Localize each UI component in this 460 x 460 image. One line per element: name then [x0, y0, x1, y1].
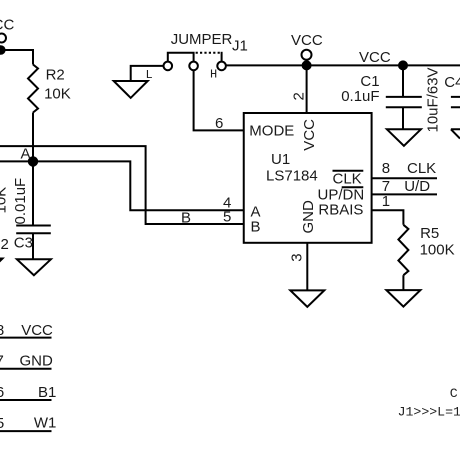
connector pin number 6 (clipped) — [0, 384, 4, 401]
note text J1>>>L=1 — [398, 404, 460, 419]
U1 pin 1 wire to R5 — [372, 210, 404, 225]
svg-text:100K: 100K — [420, 242, 455, 259]
U1 pin 7 U/D wire — [372, 193, 437, 195]
U1 pin name RBAIS — [318, 202, 363, 219]
svg-text:10K: 10K — [0, 187, 9, 214]
svg-text:GND: GND — [300, 200, 317, 234]
power symbol VCC top-left (clipped at edge) — [0, 34, 6, 43]
svg-text:R5: R5 — [420, 225, 439, 242]
svg-text:W1: W1 — [34, 415, 57, 432]
ground below R5 — [386, 290, 420, 307]
svg-text:L: L — [146, 68, 153, 82]
blue value fragment at left edge (rotated) — [0, 187, 9, 214]
svg-text:0.1uF: 0.1uF — [341, 88, 379, 105]
U1 pin name MODE — [249, 123, 294, 140]
wire jumper mid pin to U1 pin 6 MODE — [194, 70, 244, 130]
pin number 7 — [382, 178, 390, 195]
svg-text:2: 2 — [1, 236, 9, 253]
wire from R2 bottom through node A down to C3 — [32, 113, 34, 226]
value 100K — [420, 242, 455, 259]
svg-text:C4: C4 — [444, 74, 460, 91]
U1 pin name GND (rotated) — [300, 200, 317, 234]
connector stub pin 8 VCC — [0, 337, 52, 339]
svg-text:2: 2 — [291, 92, 308, 100]
U1 pin name UP/DN — [318, 187, 365, 204]
pin number 1 — [382, 193, 390, 210]
capacitor C3 plates — [16, 226, 51, 234]
value 0.1uF — [341, 88, 379, 105]
pin number 6 — [215, 115, 223, 132]
svg-text:JUMPER: JUMPER — [171, 31, 233, 48]
svg-text:VCC: VCC — [359, 49, 391, 66]
svg-text:B: B — [251, 219, 261, 236]
svg-text:B: B — [181, 210, 191, 227]
wire VCC rail — [226, 64, 460, 66]
net label VCC — [359, 49, 391, 66]
jumper position label H — [210, 68, 217, 82]
ground below C4 (clipped) — [451, 129, 460, 138]
resistor R5 — [398, 225, 408, 275]
svg-text:C3: C3 — [14, 235, 33, 252]
svg-text:3: 3 — [289, 253, 306, 261]
svg-text:CLK: CLK — [407, 160, 436, 177]
svg-text:C: C — [450, 386, 458, 401]
pin number 2 (rotated) — [291, 92, 308, 100]
note text fragment C — [450, 386, 458, 401]
overline on DN of UP/DN pin name — [342, 186, 364, 188]
connector stub pin 6 B1 — [0, 399, 52, 401]
connector net VCC — [21, 322, 53, 339]
svg-text:U/D: U/D — [404, 178, 430, 195]
label U1 — [271, 151, 290, 168]
wire R5 to ground — [402, 275, 404, 290]
power symbol VCC (top middle) — [302, 50, 312, 60]
wire C3 to ground — [32, 233, 34, 259]
svg-text:J1: J1 — [232, 37, 248, 54]
svg-text:LS7184: LS7184 — [266, 168, 318, 185]
svg-text:10uF/63V: 10uF/63V — [425, 67, 442, 132]
junction dot VCC at pin 2 — [303, 61, 311, 69]
svg-text:B1: B1 — [38, 384, 56, 401]
ground below C3 — [17, 259, 51, 275]
svg-text:A: A — [21, 146, 31, 163]
pin number 4 — [223, 195, 231, 212]
pin number 2 fragment at left edge — [1, 236, 9, 253]
label LS7184 — [266, 168, 318, 185]
overline on CLK pin name — [333, 170, 364, 172]
node label B — [181, 210, 191, 227]
svg-text:5: 5 — [223, 209, 231, 226]
label R2 — [46, 67, 65, 84]
svg-text:10K: 10K — [44, 86, 71, 103]
U1 pin name VCC (rotated) — [301, 119, 318, 151]
U1 pin 8 CLK wire — [372, 177, 437, 179]
U1 pin name CLK — [333, 171, 362, 188]
label J1 — [232, 37, 248, 54]
U1 pin 3 GND wire — [306, 243, 308, 291]
svg-text:J1>>>L=1: J1>>>L=1 — [398, 404, 460, 419]
svg-text:6: 6 — [0, 384, 4, 401]
pin number 3 (rotated) — [289, 253, 306, 261]
connector pin number 5 (clipped) — [0, 415, 4, 432]
node label A — [21, 146, 31, 163]
svg-text:MODE: MODE — [249, 123, 294, 140]
wire VCC to U1 pin 2 — [306, 65, 308, 113]
IC U1 body — [244, 113, 372, 243]
label VCC top middle — [291, 32, 323, 49]
jumper pin circle H — [217, 62, 226, 71]
connector stub pin 5 W1 — [0, 430, 52, 432]
ground below jumper — [114, 81, 148, 98]
svg-text:1: 1 — [382, 193, 390, 210]
net label CLK — [407, 160, 436, 177]
connector net GND — [20, 353, 54, 370]
svg-text:VCC: VCC — [301, 119, 318, 151]
svg-text:H: H — [210, 68, 217, 82]
svg-text:VCC: VCC — [21, 322, 53, 339]
svg-text:VCC: VCC — [0, 17, 14, 34]
label C4 — [444, 74, 460, 91]
pin number 5 — [223, 209, 231, 226]
connector net B1 — [38, 384, 56, 401]
svg-text:RBAIS: RBAIS — [318, 202, 363, 219]
svg-text:8: 8 — [0, 322, 4, 339]
junction dot VCC at C1 — [399, 61, 407, 69]
label JUMPER — [171, 31, 233, 48]
svg-text:U1: U1 — [271, 151, 290, 168]
wire VCC to C1 — [402, 65, 404, 97]
resistor R2 — [28, 65, 38, 113]
wire from top-left VCC to R2 top — [0, 50, 33, 65]
wire net B (to U1 pin 5) — [0, 146, 244, 224]
connector net W1 — [34, 415, 57, 432]
ground below C1 — [387, 129, 421, 146]
svg-text:8: 8 — [382, 160, 390, 177]
jumper J1 dotted position — [196, 52, 222, 62]
wire net A (to U1 pin 4) — [0, 161, 244, 210]
junction dot at top-left VCC node — [0, 46, 5, 54]
value 0.01uF (rotated) — [12, 178, 29, 225]
svg-text:7: 7 — [0, 353, 4, 370]
wire C1 to ground — [402, 107, 404, 129]
U1 pin name B — [251, 219, 261, 236]
svg-text:6: 6 — [215, 115, 223, 132]
value 10uF/63V (rotated) — [425, 67, 442, 132]
capacitor C4 plates (clipped at edge) — [451, 97, 460, 107]
jumper position label L — [146, 68, 153, 82]
label C1 — [360, 73, 379, 90]
ground below U1 pin 3 — [290, 290, 324, 307]
label VCC top-left — [0, 17, 14, 34]
junction dot node A — [29, 157, 37, 165]
U1 pin name A — [251, 204, 261, 221]
wire jumper L pin to ground — [131, 66, 164, 81]
capacitor C1 plates — [386, 97, 422, 107]
svg-text:0.01uF: 0.01uF — [12, 178, 29, 225]
jumper J1 bar (solid position) — [168, 53, 194, 62]
svg-text:GND: GND — [20, 353, 54, 370]
connector pin number 8 (clipped) — [0, 322, 4, 339]
connector pin number 7 (clipped) — [0, 353, 4, 370]
svg-text:VCC: VCC — [291, 32, 323, 49]
label R5 — [420, 225, 439, 242]
connector stub pin 7 GND — [0, 368, 52, 370]
svg-text:R2: R2 — [46, 67, 65, 84]
net label U/D — [404, 178, 430, 195]
jumper pin circle L — [164, 62, 173, 71]
label C3 — [14, 235, 33, 252]
pin number 8 — [382, 160, 390, 177]
ground symbol fragment at left edge (clipped) — [0, 259, 3, 276]
svg-text:5: 5 — [0, 415, 4, 432]
svg-text:CLK: CLK — [333, 171, 362, 188]
jumper pin circle mid — [189, 62, 198, 71]
value 10K — [44, 86, 71, 103]
